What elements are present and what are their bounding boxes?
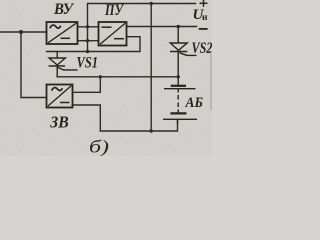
battery plate long bottom (163, 118, 197, 120)
wire: VU-PU upper link (78, 26, 99, 28)
node: bus lower (86, 39, 89, 42)
svg-text:АБ: АБ (185, 95, 204, 111)
svg-text:ВУ: ВУ (53, 1, 75, 18)
wire: bottom rail VS1 to battery (57, 76, 178, 78)
battery AB (163, 77, 197, 124)
VU dc dash (61, 37, 71, 39)
wire: left vertical down to ZV (21, 32, 47, 98)
node: bus upper (86, 25, 89, 28)
svg-text:ПУ: ПУ (104, 2, 124, 19)
node: input junction (19, 30, 23, 34)
wire: PU output to Un rail (127, 26, 197, 28)
thyristor VS1 (49, 52, 78, 77)
wire: top rail + (88, 4, 196, 53)
charger ZV box (47, 85, 73, 108)
ZV dc dash (60, 102, 70, 104)
VS1 gate (58, 67, 78, 70)
rectifier VU box (47, 22, 78, 44)
wire: AC input left (0, 31, 47, 33)
battery plate long top (164, 88, 196, 90)
scan artifact: faint edge line (210, 52, 212, 110)
wire: PU lower output bracket to VS1 line (47, 37, 141, 52)
svg-text:VS2: VS2 (192, 40, 213, 57)
node: bottom wire junction (150, 129, 153, 132)
wire: middle vertical bus (150, 4, 152, 132)
VU tilde symbol (50, 25, 61, 28)
ZV tilde symbol (52, 88, 63, 91)
battery plate short top (171, 85, 186, 87)
wire: ZV bottom-right to battery minus (73, 105, 178, 131)
svg-text:ЗВ: ЗВ (49, 113, 68, 132)
PU upper dc dash (102, 26, 112, 28)
svg-text:VS1: VS1 (77, 55, 99, 72)
scan artifact: speck (57, 127, 59, 129)
converter PU box (99, 22, 127, 46)
node: VS1 line junction (86, 50, 89, 53)
svg-text:н: н (202, 13, 208, 23)
wire: VU-PU lower link (78, 40, 99, 42)
label plus terminal (200, 0, 208, 7)
battery dashed middle (177, 89, 179, 93)
thyristor VS2 (170, 27, 197, 77)
node: bottom rail / ZV junction (99, 75, 102, 78)
battery plate short bottom (170, 112, 186, 114)
svg-text:б): б) (89, 137, 109, 157)
node: top rail junction (150, 2, 153, 5)
battery bottom lead (177, 119, 179, 124)
node: Un rail / VS2 junction (177, 25, 180, 28)
node: bottom rail / battery junction (177, 75, 180, 78)
wire: ZV top-right to bottom rail (73, 77, 101, 93)
battery top lead (177, 77, 179, 85)
VS2 gate (180, 53, 197, 56)
label minus terminal (199, 28, 208, 30)
PU lower dc dash (114, 38, 124, 40)
